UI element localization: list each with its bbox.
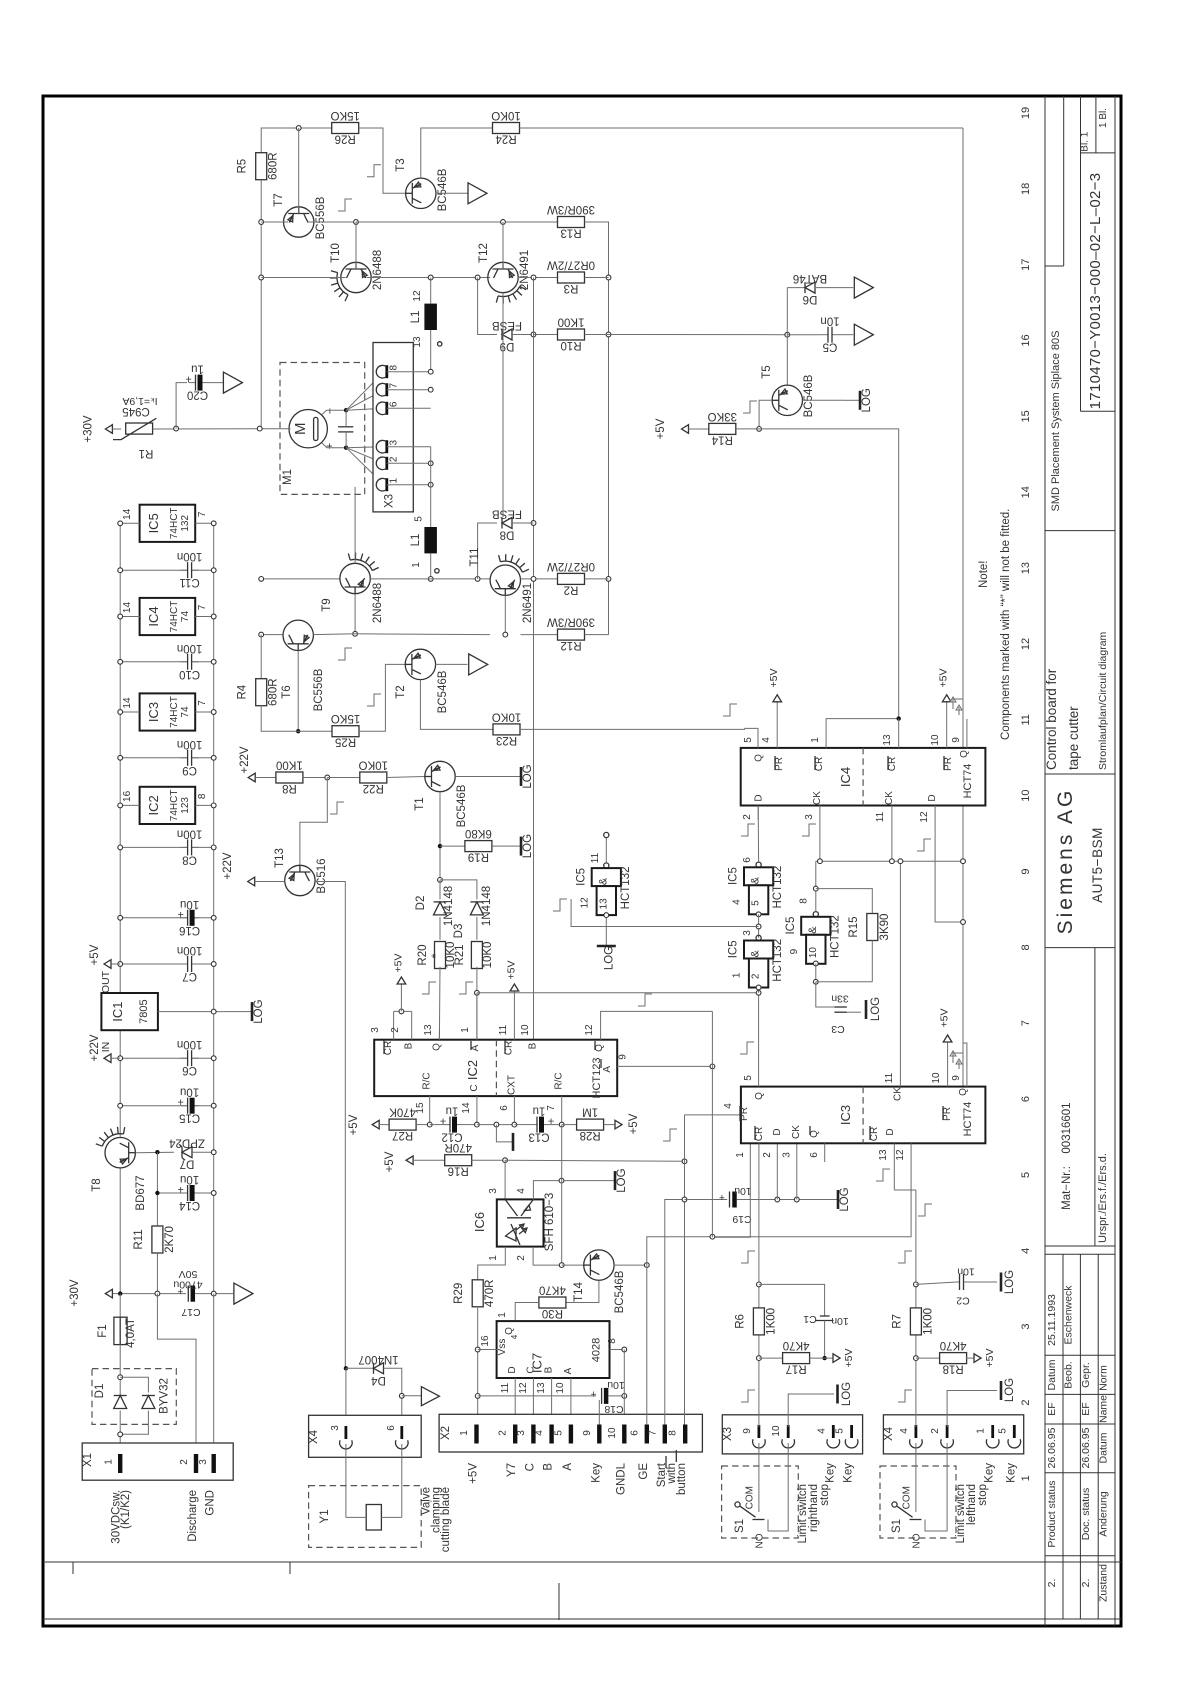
svg-text:R2: R2 (564, 583, 579, 595)
svg-text:&: & (807, 926, 819, 934)
wire C17 to port (195, 1293, 233, 1295)
svg-text:LOG: LOG (522, 764, 534, 788)
svg-text:IC3: IC3 (146, 702, 161, 722)
IC4 pin4 stub (776, 701, 778, 748)
title block left boundary (1044, 96, 1046, 1626)
right decoupling rail (213, 523, 215, 1293)
IC7 pin16 stub (478, 1349, 497, 1351)
motor circle (289, 410, 327, 448)
svg-text:4028: 4028 (590, 1338, 602, 1362)
edge symbol gates line (553, 899, 567, 911)
svg-text:Datum: Datum (1098, 1432, 1110, 1463)
X3 upper pin 8 socket (385, 365, 388, 378)
wire discharge jog (157, 1294, 196, 1454)
svg-text:11: 11 (590, 852, 601, 863)
svg-text:R16: R16 (448, 1165, 469, 1177)
diode D6 BAT46 (805, 282, 815, 293)
svg-text:R5: R5 (237, 159, 249, 174)
IC2 pin1 A stub (476, 993, 478, 1040)
X2 pin7 lead (665, 1200, 685, 1425)
transistor T10 2N6488 (341, 262, 371, 292)
svg-text:T2: T2 (395, 685, 407, 698)
wire gate4 out stub (605, 838, 607, 863)
svg-text:BC556B: BC556B (315, 196, 327, 239)
junction px532 at D8 row (531, 521, 536, 526)
svg-text:IC4: IC4 (838, 767, 853, 787)
svg-text:+5V: +5V (384, 1151, 396, 1172)
connector X2 box (439, 1414, 702, 1452)
transistor T6 BC556B (283, 620, 313, 650)
svg-text:BC546B: BC546B (437, 670, 449, 713)
IC3 pin3 stub (796, 1143, 798, 1199)
svg-text:2: 2 (179, 1459, 190, 1465)
wire gate3 out up (815, 861, 817, 911)
svg-text:Q: Q (431, 1043, 442, 1051)
decoupling C11 junction left (118, 568, 123, 573)
edge symbol IC4 pin2 (741, 824, 755, 836)
svg-text:IC1: IC1 (110, 1001, 125, 1021)
svg-text:3: 3 (742, 930, 753, 936)
X4l pin 4 socket (915, 1425, 918, 1438)
wire R11 to +30V row (156, 1253, 158, 1294)
resistor R12 390R/3W (558, 629, 585, 640)
svg-text:11: 11 (498, 1024, 509, 1035)
junction R5 rail at T7 row (259, 220, 264, 225)
edge symbol R21 line (459, 982, 473, 994)
junction IC3 pin2 row (775, 1197, 780, 1202)
svg-text:7: 7 (197, 604, 208, 610)
capacitor C13 1u (537, 1115, 541, 1135)
svg-text:10KO: 10KO (359, 759, 388, 771)
decoupling cap C8 100n (188, 837, 192, 857)
wire IC6 pin2 jog (533, 1247, 562, 1266)
svg-text:5: 5 (1020, 1172, 1032, 1178)
Bl. row bottom line (1081, 152, 1116, 154)
wire T13 line to X4pin3 (345, 1368, 347, 1424)
X2 pin 6 bar (645, 1425, 649, 1444)
junction T6 row px261 (259, 632, 264, 637)
wire R17 row (759, 1357, 783, 1359)
svg-text:tape cutter: tape cutter (1066, 706, 1081, 770)
transistor T13 BC516 (285, 865, 315, 895)
resistor R29 470R (472, 1280, 483, 1307)
resistor R3 0R27/2W (558, 272, 585, 283)
power box IC4 (140, 598, 196, 635)
wire D1b bottom (120, 1411, 148, 1435)
wire D4 row (346, 1367, 374, 1369)
resistor R4 680R (256, 679, 267, 706)
svg-text:15KO: 15KO (331, 712, 360, 724)
svg-text:IC5: IC5 (575, 868, 587, 886)
svg-text:BC546B: BC546B (437, 168, 449, 211)
svg-text:T1: T1 (414, 797, 426, 810)
svg-text:Key: Key (843, 1463, 855, 1483)
IC7 pin8 stub (610, 1349, 625, 1351)
gate IC5 pins 1,2,3 (756, 935, 761, 940)
capacitor C18 10u (601, 1388, 603, 1404)
svg-text:13: 13 (536, 1382, 547, 1394)
wire rail to F1 (119, 1294, 121, 1318)
wire R8 to junction (302, 777, 327, 779)
wire T13 emitter right (315, 882, 345, 1369)
transistor T9 2N6488 (340, 563, 370, 593)
junction T10 base (354, 220, 359, 225)
junction IC1 gnd rail (211, 1009, 216, 1014)
junction T9 base row (353, 631, 358, 636)
resistor R11 2K70 (152, 1226, 163, 1253)
wire R21 to IC2 pin1 (476, 967, 478, 1040)
wire C18 to pin8 net (608, 1395, 624, 1397)
IC3 pin9 stub (963, 1043, 967, 1087)
svg-text:+: + (185, 373, 191, 385)
connector X3 upper box (373, 343, 413, 512)
svg-text:1K00: 1K00 (922, 1308, 934, 1335)
svg-text:T14: T14 (573, 1281, 585, 1301)
C16 row wire (120, 917, 214, 919)
IC3 pin2 stub (776, 1143, 778, 1199)
svg-text:BC516: BC516 (316, 858, 328, 893)
wire C13 to pin7 (548, 1124, 562, 1126)
junction gate4 in (604, 913, 609, 918)
X3l pin 9 socket (758, 1425, 761, 1438)
wire motor fan pin2 (346, 448, 384, 464)
svg-text:CR: CR (754, 1127, 765, 1141)
svg-text:D9: D9 (500, 340, 515, 352)
IC3 pin right wire (195, 711, 214, 713)
svg-text:13: 13 (598, 898, 609, 910)
svg-text:FESB: FESB (492, 508, 522, 520)
transistor T14 BC546B (584, 1250, 614, 1280)
X3 upper pin 7 wire (387, 389, 431, 391)
svg-text:R26: R26 (335, 133, 356, 145)
svg-text:1u: 1u (446, 1105, 459, 1117)
svg-text:NO: NO (755, 1533, 766, 1548)
svg-text:M1: M1 (282, 469, 294, 485)
junction C14 left (155, 1191, 159, 1195)
wire IC6 pin4 jog (533, 1181, 561, 1200)
svg-text:9: 9 (951, 737, 962, 743)
gate4 input down to LOG (605, 915, 607, 938)
svg-text:CK: CK (812, 791, 823, 805)
wire R30 to IC7 pin1 (515, 1303, 539, 1322)
wire D8 anode (512, 522, 534, 524)
wire R7 net vertical (915, 1190, 917, 1427)
LOG at gate4 (605, 938, 607, 946)
arrow +22V R8 (248, 773, 255, 782)
wire R15 bot to gate3 (816, 981, 873, 983)
svg-text:1: 1 (104, 1459, 115, 1465)
svg-text:+5V: +5V (939, 1009, 951, 1028)
wire R6 net vertical (758, 1143, 760, 1427)
svg-text:10n: 10n (957, 1266, 975, 1278)
wire R22 to T1 base (387, 777, 425, 778)
svg-text:+5V: +5V (984, 1349, 996, 1368)
wire motor cap leads (345, 410, 347, 427)
wire T7 base (298, 128, 300, 214)
decoupling cap C11 100n (188, 560, 192, 580)
C7 junctions (118, 962, 123, 967)
svg-text:7: 7 (389, 382, 400, 388)
connector X1 box (82, 1443, 233, 1480)
siemens block top line (1045, 773, 1115, 775)
wire S1 right COM (758, 1443, 760, 1512)
wire T7 row to T12 base (356, 221, 505, 223)
arrow +5V IC2 pin3 (397, 977, 406, 984)
resistor R28 1M (577, 1119, 604, 1130)
junction right vert R2 (606, 577, 611, 582)
wire px261 to R4 (260, 635, 262, 680)
junction px532 at T12 row (531, 275, 536, 280)
svg-text:D: D (753, 794, 764, 801)
svg-text:R1: R1 (139, 447, 154, 459)
svg-text:1K00: 1K00 (276, 759, 303, 771)
svg-text:1: 1 (735, 1152, 746, 1158)
svg-text:HCT132: HCT132 (772, 939, 784, 982)
port triangle C20 (223, 372, 242, 393)
IC2 pin6 stub (513, 1096, 515, 1125)
wire T12 base lead (502, 222, 504, 269)
svg-text:74HCT: 74HCT (169, 601, 180, 633)
IC4 pin left wire (120, 616, 139, 618)
IC3 pin13 stub (893, 1143, 895, 1190)
junction D7 rail (211, 1150, 216, 1155)
svg-text:C16: C16 (179, 924, 200, 936)
wire px477 down to D9 row (478, 278, 497, 335)
svg-text:IC5: IC5 (728, 940, 740, 958)
junction X2 pin8 at C19 row (682, 1197, 687, 1202)
svg-text:3: 3 (1020, 1324, 1032, 1330)
svg-text:IC5: IC5 (785, 917, 797, 935)
edge symbol IC4 pin3 (802, 824, 816, 836)
svg-text:4: 4 (516, 1188, 527, 1194)
junction IC3 pin3 row (794, 1197, 799, 1202)
zener diode D7 ZPD24 (182, 1147, 192, 1158)
wire T7 row left (261, 221, 288, 223)
junction rail A at px261 (259, 577, 264, 582)
junction L1b rail A (428, 577, 433, 582)
X2 pin 10 bar (622, 1425, 626, 1444)
wire C1 to R17 (824, 1321, 826, 1359)
svg-text:+5V: +5V (768, 669, 780, 688)
svg-text:123: 123 (180, 797, 191, 814)
svg-text:3: 3 (389, 439, 400, 445)
svg-text:10u: 10u (180, 1173, 199, 1185)
svg-text:&: & (750, 876, 762, 884)
IC4 pin13 stub (898, 719, 900, 748)
svg-text:EF: EF (1046, 1402, 1058, 1415)
svg-text:D7: D7 (180, 1158, 195, 1170)
svg-text:LOG: LOG (841, 1382, 853, 1406)
IC3 pin10 stub (947, 1042, 949, 1087)
svg-text:R29: R29 (453, 1283, 465, 1304)
IC2 pin right junction (211, 803, 216, 808)
svg-text:X1: X1 (82, 1453, 94, 1467)
svg-text:CXT: CXT (506, 1075, 517, 1095)
heatsink comb T11 (499, 555, 501, 562)
junction C18 right (622, 1394, 627, 1399)
motor commutator bar (314, 417, 318, 440)
svg-text:1K00: 1K00 (558, 316, 585, 328)
junction long line px684 (682, 1159, 687, 1164)
svg-text:IN: IN (100, 1042, 112, 1053)
gate IC5 pins 12,13,11 (604, 863, 609, 868)
wire px712 link (711, 1011, 713, 1237)
junction R6 C1 (757, 1282, 762, 1287)
motor capacitor plates (338, 426, 353, 428)
svg-text:7: 7 (197, 700, 208, 706)
IC5 pin left wire (120, 522, 139, 524)
IC4 pin5 stub (745, 728, 759, 748)
wire R25 row (298, 730, 332, 732)
svg-text:R27: R27 (392, 1129, 413, 1141)
wire px477 D8 seg (478, 523, 497, 579)
svg-text:50V: 50V (179, 1268, 198, 1280)
port triangle C17 (234, 1283, 253, 1304)
svg-text:BC546B: BC546B (614, 1270, 626, 1313)
resistor R27 470K (389, 1119, 416, 1130)
wire T13 base jog (300, 778, 327, 866)
edge symbol left of T3 (338, 199, 352, 211)
decoupling cap C9 wire (120, 757, 214, 759)
LOG at X3 pin10 (836, 1385, 839, 1404)
svg-text:100n: 100n (177, 944, 203, 956)
svg-text:C19: C19 (732, 1213, 751, 1225)
svg-text:6: 6 (1020, 1096, 1032, 1102)
junction R29 C18 (475, 1394, 480, 1399)
wire IC7 D lead (514, 1378, 516, 1425)
wire C20 to port (207, 382, 224, 384)
svg-text:IC5: IC5 (728, 867, 740, 885)
IC3 pin12 jog (647, 1143, 911, 1265)
resistor R5 680R (256, 153, 267, 180)
decoupling cap C8 wire (120, 846, 214, 848)
svg-text:Key: Key (984, 1463, 996, 1483)
svg-text:14: 14 (122, 508, 133, 520)
junction right vert R3 (606, 275, 611, 280)
wire D2 branch (439, 880, 441, 900)
svg-text:10n: 10n (820, 315, 839, 327)
edge symbol R23 line (723, 704, 737, 716)
arrow +5V IC2 pin11 (510, 984, 519, 991)
svg-text:11: 11 (500, 1382, 511, 1393)
edge symbol IC2 pin12 (638, 994, 652, 1006)
title block cell line A (1063, 96, 1065, 266)
wire D6 anode to port (816, 287, 853, 289)
wire pin6 to C13 (514, 1124, 530, 1126)
edge symbol R6 net a (741, 1251, 755, 1263)
svg-text:&: & (750, 949, 762, 957)
svg-text:12: 12 (1020, 638, 1032, 650)
C19 row wire right (737, 1199, 827, 1201)
svg-text:1K00: 1K00 (765, 1308, 777, 1335)
svg-text:IC5: IC5 (146, 513, 161, 533)
IC2 pin2 B stub (411, 1011, 413, 1039)
wire R19 row (440, 845, 465, 847)
X1 pin3 bar (212, 1454, 216, 1473)
wire X4l pin2 up (947, 1391, 997, 1428)
svg-text:D3: D3 (453, 924, 465, 939)
resistor R30 4K70 (539, 1297, 566, 1308)
resistor R8 1K00 (276, 772, 303, 783)
svg-text:C5: C5 (823, 341, 838, 353)
IC3 pin right junction (211, 710, 216, 715)
svg-text:15: 15 (1020, 410, 1032, 422)
svg-text:R/C: R/C (554, 1072, 565, 1089)
wire T14 base (562, 1264, 584, 1266)
wire C2 branch (916, 1282, 957, 1284)
svg-text:D4: D4 (371, 1374, 386, 1386)
svg-text:8: 8 (197, 793, 208, 799)
fold mark 1 (72, 1562, 74, 1574)
wire S1 left COM (915, 1443, 917, 1512)
wire R16 long line right (505, 1160, 684, 1161)
inner border line (landscape left margin) (43, 1561, 1121, 1563)
svg-text:COM: COM (902, 1486, 913, 1509)
svg-text:5: 5 (743, 737, 754, 743)
svg-text:D6: D6 (803, 293, 818, 305)
svg-text:5: 5 (414, 516, 425, 522)
X1 pin2 bar (194, 1454, 198, 1473)
wire gate2 in down (758, 988, 760, 993)
svg-text:4K70: 4K70 (539, 1284, 566, 1296)
wire R7 net top jog (894, 1189, 916, 1191)
wire T5 collector up (786, 288, 788, 386)
svg-text:R19: R19 (468, 851, 489, 863)
X4l pin 5 socket (1013, 1425, 1016, 1438)
wire R29 down (477, 1307, 479, 1425)
X1 pin1 bar (118, 1454, 122, 1473)
svg-text:&: & (597, 877, 609, 885)
svg-text:2N6491: 2N6491 (519, 250, 531, 290)
X3 upper pin 7 socket (385, 383, 388, 396)
svg-text:Name: Name (1098, 1395, 1110, 1423)
svg-text:5: 5 (751, 900, 762, 906)
wire T9 top lead (354, 487, 356, 563)
svg-text:R18: R18 (943, 1363, 964, 1375)
svg-text:Discharge: Discharge (187, 1490, 199, 1542)
svg-text:FESB: FESB (492, 319, 522, 331)
edge symbol R25 right (367, 694, 381, 706)
wire T7 row right (309, 221, 356, 223)
svg-text:12: 12 (579, 897, 590, 909)
decoupling cap C11 wire (120, 569, 214, 571)
IC7 box (497, 1321, 610, 1378)
junction X3 pin1 (428, 482, 433, 487)
svg-text:R/C: R/C (422, 1072, 433, 1089)
svg-text:1N4148: 1N4148 (443, 886, 455, 926)
junction T11 bottom (503, 632, 508, 637)
junction T12 base (501, 220, 506, 225)
svg-text:Q: Q (753, 754, 764, 762)
wire T2 emitter to port (436, 663, 468, 665)
diode D1b (142, 1396, 155, 1409)
arrow +5V IC4 pin4 (773, 695, 782, 702)
svg-text:Urspr./Ers.f./Ers.d.: Urspr./Ers.f./Ers.d. (1097, 1153, 1109, 1243)
junction CK long line (961, 859, 966, 864)
wire F1 to D1 (119, 1345, 121, 1397)
svg-text:10: 10 (931, 1072, 942, 1084)
IC4 pin left junction (118, 614, 123, 619)
svg-text:R30: R30 (542, 1307, 563, 1319)
wire pin15 to C12 (430, 1124, 443, 1126)
svg-text:Norm: Norm (1098, 1365, 1110, 1391)
svg-text:C6: C6 (182, 1064, 197, 1076)
wire R3 right (585, 277, 609, 279)
wire motor fan pin7 (346, 390, 384, 411)
svg-text:Key: Key (824, 1463, 836, 1483)
capacitor C14 10u (188, 1183, 192, 1203)
svg-text:EF: EF (1080, 1402, 1092, 1415)
